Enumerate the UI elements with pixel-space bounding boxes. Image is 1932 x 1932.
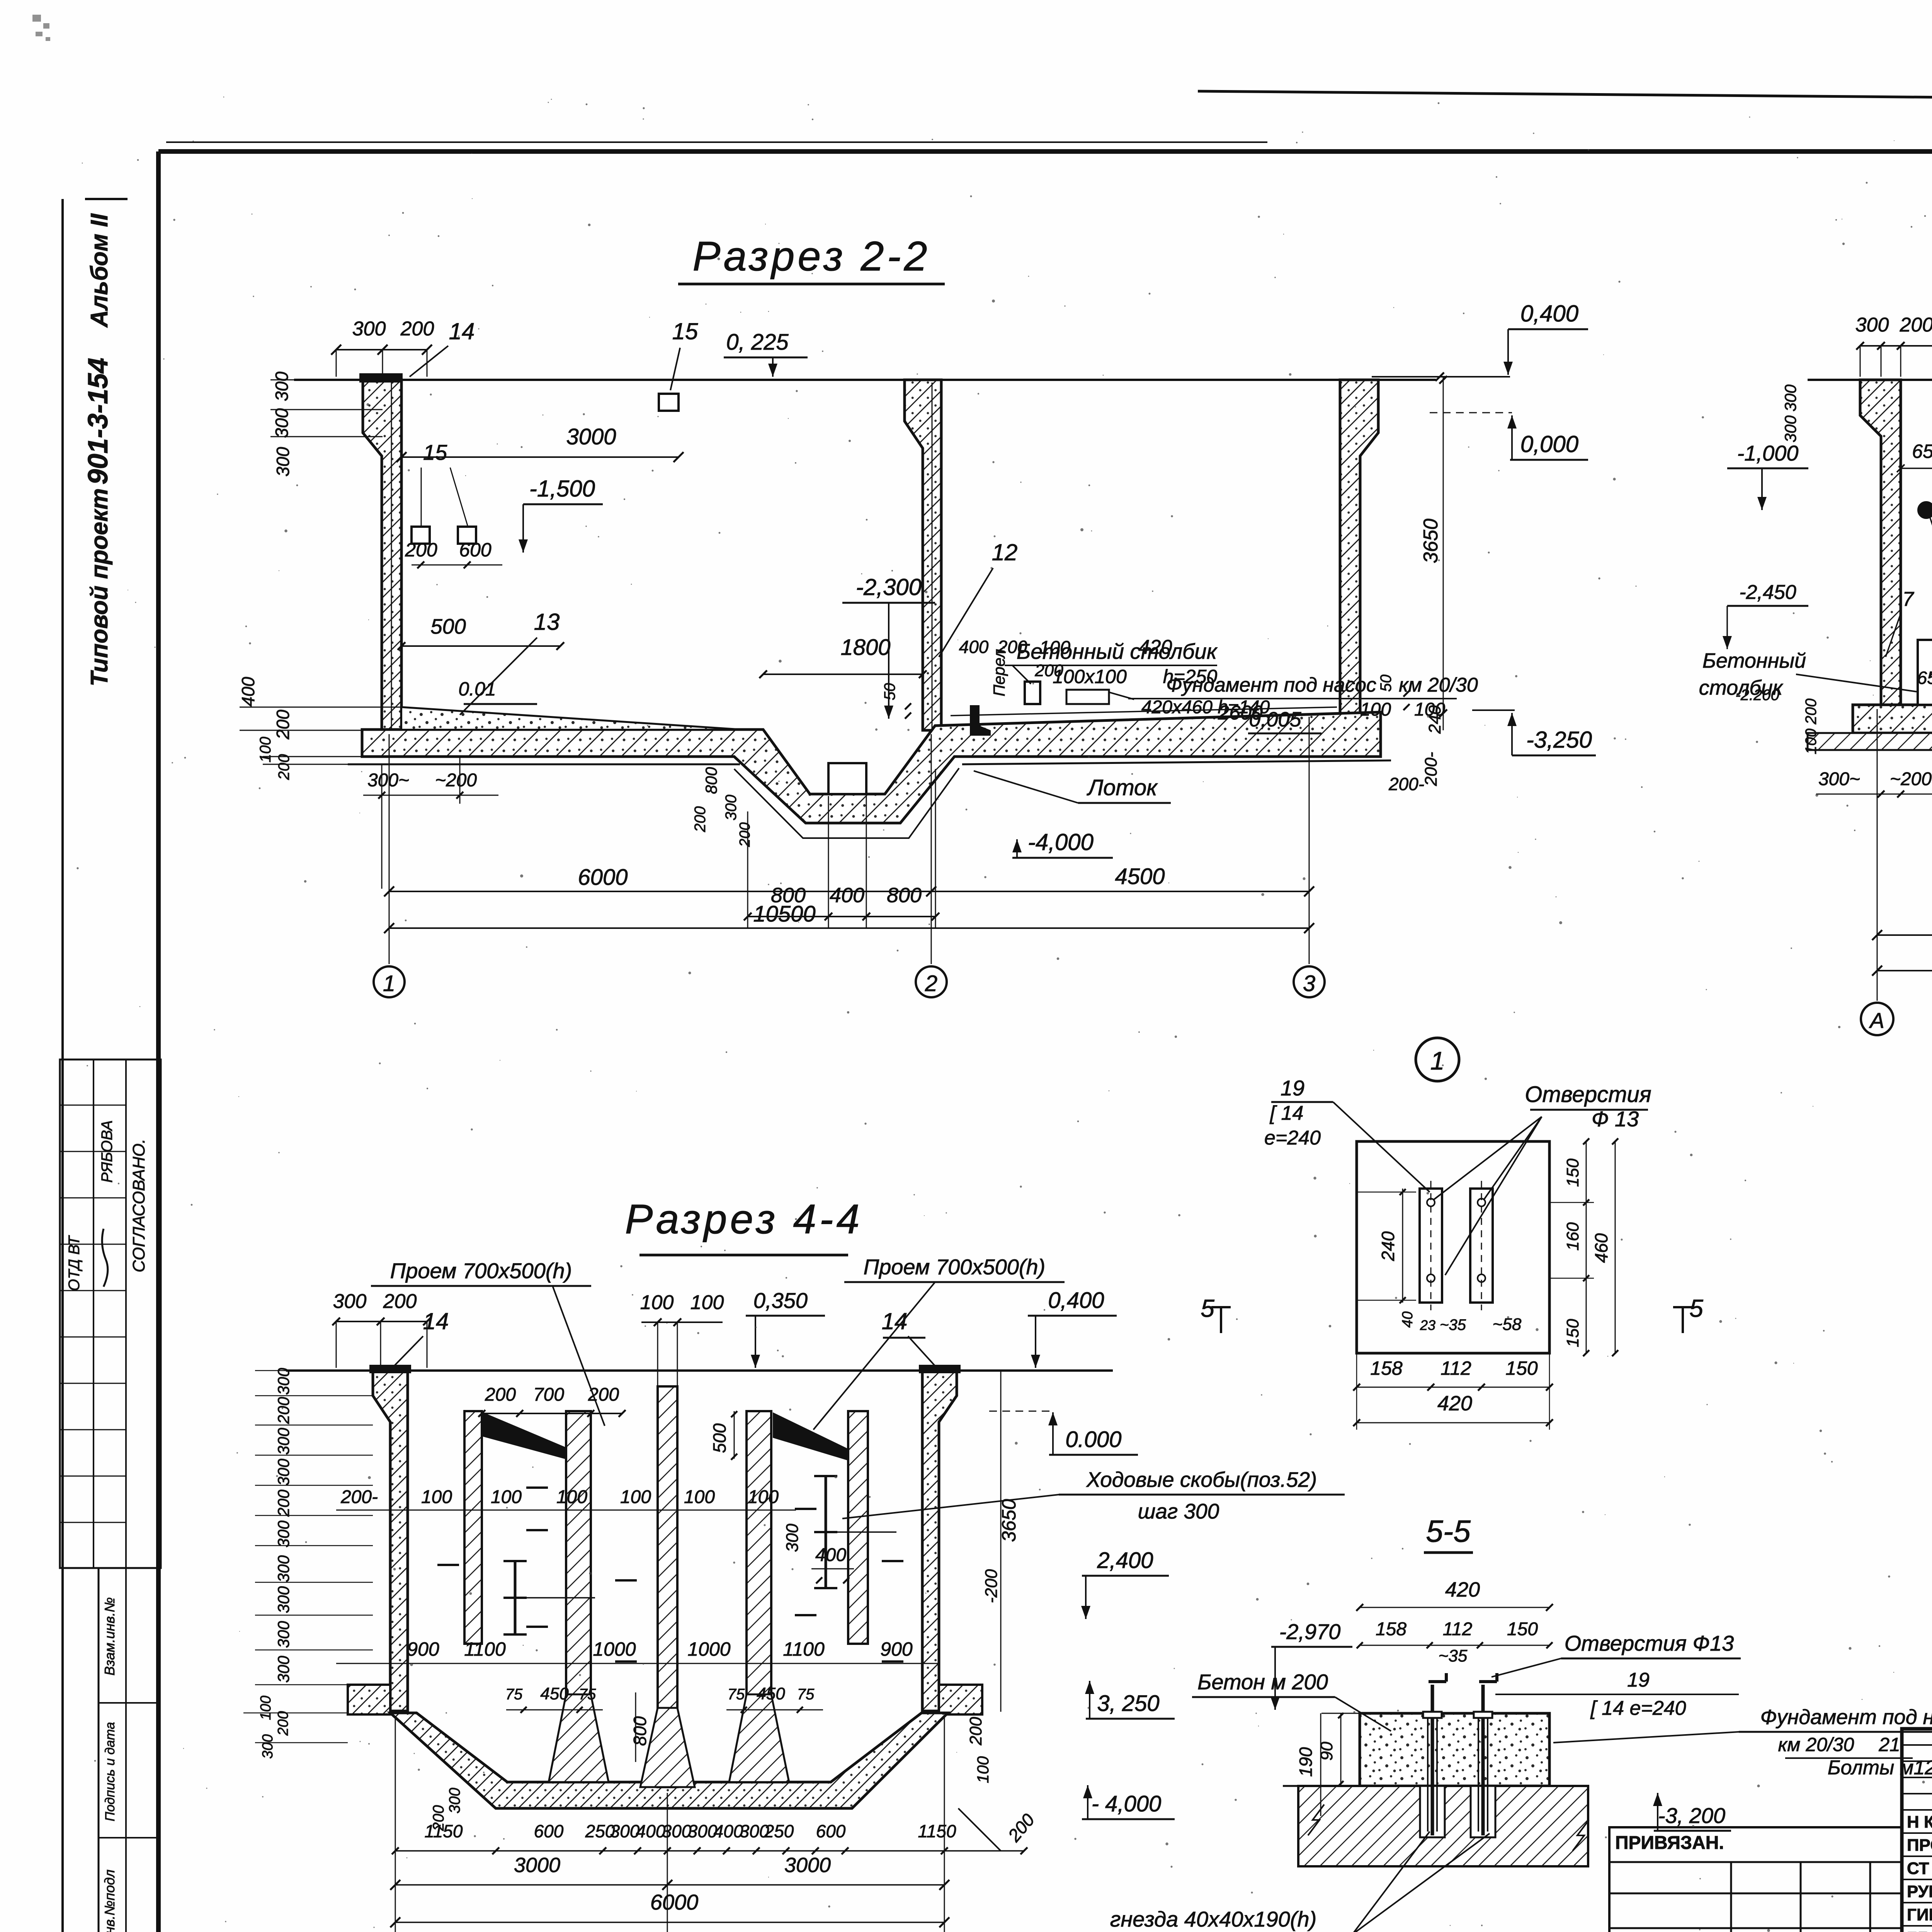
svg-text:23: 23 (1420, 1317, 1435, 1333)
svg-text:10500: 10500 (753, 901, 815, 927)
svg-text:1100: 1100 (464, 1638, 506, 1660)
svg-text:200: 200 (273, 709, 293, 740)
svg-text:300: 300 (783, 1524, 802, 1552)
svg-text:200: 200 (1034, 661, 1063, 680)
svg-text:0,400: 0,400 (1048, 1288, 1104, 1313)
svg-text:200: 200 (274, 1489, 293, 1517)
svg-text:0.01: 0.01 (458, 678, 496, 700)
svg-text:4500: 4500 (1115, 864, 1165, 889)
svg-text:100: 100 (1039, 638, 1070, 658)
svg-text:0,005: 0,005 (1249, 708, 1301, 731)
svg-text:200: 200 (588, 1384, 619, 1405)
svg-text:300: 300 (446, 1788, 463, 1814)
svg-text:100: 100 (491, 1487, 522, 1507)
svg-text:900: 900 (407, 1638, 439, 1660)
svg-text:75: 75 (505, 1686, 523, 1703)
svg-text:158: 158 (1370, 1357, 1403, 1379)
svg-text:0,000: 0,000 (1520, 431, 1578, 457)
svg-text:300: 300 (723, 795, 740, 821)
svg-text:250: 250 (764, 1821, 794, 1841)
svg-text:~200: ~200 (435, 770, 477, 791)
svg-text:200: 200 (274, 1396, 293, 1424)
svg-text:300~: 300~ (367, 770, 409, 791)
svg-text:3, 250: 3, 250 (1097, 1691, 1159, 1716)
svg-text:СТ ИНЖ: СТ ИНЖ (1907, 1859, 1932, 1878)
svg-text:7: 7 (1903, 588, 1915, 611)
svg-text:21: 21 (1878, 1734, 1900, 1755)
svg-text:ПРИВЯЗАН.: ПРИВЯЗАН. (1615, 1833, 1724, 1853)
svg-text:Бетон м 200: Бетон м 200 (1197, 1670, 1328, 1694)
svg-text:км 20/30: км 20/30 (1399, 674, 1478, 696)
svg-text:3650: 3650 (1420, 519, 1442, 563)
svg-text:150: 150 (1505, 1357, 1538, 1379)
svg-text:300: 300 (274, 1458, 293, 1486)
svg-text:Разрез 2-2: Разрез 2-2 (692, 233, 930, 279)
svg-text:14: 14 (449, 318, 475, 344)
svg-text:Лоток: Лоток (1086, 775, 1158, 800)
svg-text:Фундамент под насос: Фундамент под насос (1760, 1706, 1932, 1729)
svg-text:900: 900 (880, 1638, 913, 1660)
svg-text:0,400: 0,400 (1520, 301, 1578, 327)
svg-text:1: 1 (1430, 1046, 1445, 1075)
svg-text:-3, 200: -3, 200 (1658, 1803, 1725, 1828)
svg-text:800: 800 (630, 1716, 650, 1746)
svg-text:РУК ГР: РУК ГР (1907, 1882, 1932, 1901)
svg-text:19: 19 (1627, 1669, 1650, 1691)
svg-text:400: 400 (714, 1821, 743, 1841)
svg-text:158: 158 (1376, 1619, 1406, 1639)
svg-text:6000: 6000 (578, 865, 628, 890)
svg-text:300: 300 (274, 1555, 293, 1582)
svg-text:100: 100 (748, 1487, 779, 1507)
svg-text:300: 300 (274, 1586, 293, 1613)
svg-text:6000: 6000 (650, 1890, 699, 1914)
svg-text:300: 300 (274, 1427, 293, 1455)
svg-text:200-: 200- (340, 1487, 378, 1507)
svg-text:-2,450: -2,450 (1739, 581, 1796, 604)
svg-text:700: 700 (533, 1384, 564, 1405)
svg-text:2,400: 2,400 (1097, 1548, 1153, 1573)
svg-text:Фундамент под насос: Фундамент под насос (1166, 674, 1376, 696)
svg-text:100: 100 (684, 1487, 715, 1507)
svg-text:14: 14 (882, 1308, 908, 1334)
svg-text:СОГЛАСОВАНО.: СОГЛАСОВАНО. (129, 1139, 148, 1272)
svg-text:400: 400 (815, 1545, 846, 1565)
svg-text:5-5: 5-5 (1426, 1514, 1471, 1548)
svg-text:450: 450 (540, 1684, 569, 1703)
svg-text:Отверстия: Отверстия (1525, 1082, 1651, 1107)
svg-text:300: 300 (260, 1734, 276, 1759)
svg-text:1800: 1800 (840, 635, 890, 660)
svg-text:800: 800 (887, 884, 922, 907)
svg-text:-2,300: -2,300 (856, 574, 922, 600)
svg-text:75: 75 (728, 1686, 745, 1703)
svg-text:столбик: столбик (1699, 676, 1784, 699)
svg-text:Взам.инв.№: Взам.инв.№ (102, 1597, 117, 1676)
svg-text:-2,970: -2,970 (1279, 1619, 1341, 1644)
svg-text:200: 200 (276, 754, 293, 781)
svg-text:100: 100 (974, 1756, 992, 1783)
svg-text:0, 225: 0, 225 (726, 330, 789, 355)
svg-text:600: 600 (534, 1821, 564, 1841)
svg-text:~35: ~35 (1440, 1316, 1466, 1333)
svg-text:160: 160 (1563, 1222, 1582, 1251)
svg-text:3: 3 (1303, 971, 1315, 996)
svg-text:650: 650 (1912, 440, 1932, 462)
svg-text:Н КОНТР: Н КОНТР (1907, 1813, 1932, 1832)
svg-text:400: 400 (959, 637, 989, 657)
svg-text:-200: -200 (982, 1569, 1001, 1603)
svg-text:200: 200 (966, 1717, 985, 1746)
svg-text:75: 75 (797, 1686, 815, 1703)
svg-text:460: 460 (1591, 1233, 1611, 1263)
svg-text:Болты м12: Болты м12 (1828, 1757, 1932, 1779)
svg-text:400: 400 (636, 1821, 666, 1841)
svg-text:1100: 1100 (783, 1638, 825, 1660)
svg-text:300: 300 (688, 1821, 718, 1841)
svg-text:500: 500 (430, 614, 466, 638)
svg-text:100: 100 (258, 1696, 274, 1720)
svg-text:гнезда 40х40х190(h): гнезда 40х40х190(h) (1110, 1907, 1316, 1931)
svg-text:650: 650 (1917, 668, 1932, 688)
svg-text:100: 100 (690, 1291, 724, 1314)
svg-text:~35: ~35 (1439, 1646, 1468, 1665)
svg-text:75: 75 (579, 1686, 596, 1703)
svg-text:км 20/30: км 20/30 (1778, 1734, 1854, 1755)
svg-text:2: 2 (925, 971, 937, 996)
svg-text:100 200: 100 200 (1803, 699, 1820, 755)
svg-text:13: 13 (534, 609, 560, 635)
svg-text:Ходовые скобы(поз.52): Ходовые скобы(поз.52) (1086, 1468, 1317, 1492)
svg-text:100: 100 (421, 1487, 452, 1507)
svg-text:300~: 300~ (1818, 769, 1860, 789)
svg-text:800: 800 (702, 767, 720, 794)
svg-text:100: 100 (620, 1487, 651, 1507)
svg-text:-3,250: -3,250 (1526, 727, 1592, 753)
svg-text:300: 300 (274, 1621, 293, 1648)
svg-text:300: 300 (352, 318, 386, 340)
svg-text:50: 50 (881, 683, 898, 701)
svg-text:600: 600 (816, 1821, 846, 1841)
svg-text:-1,500: -1,500 (529, 476, 595, 502)
svg-text:100: 100 (556, 1487, 587, 1507)
svg-text:Проем 700х500(h): Проем 700х500(h) (864, 1255, 1046, 1279)
svg-text:3000: 3000 (784, 1854, 831, 1877)
svg-text:Проем 700х500(h): Проем 700х500(h) (390, 1259, 572, 1283)
svg-text:19: 19 (1281, 1076, 1304, 1100)
svg-text:Альбом II: Альбом II (86, 213, 113, 328)
svg-text:200: 200 (737, 822, 753, 847)
svg-text:-1,000: -1,000 (1737, 441, 1799, 465)
svg-text:ОТД ВТ: ОТД ВТ (66, 1235, 83, 1291)
svg-text:1: 1 (383, 971, 395, 996)
svg-text:50: 50 (1378, 675, 1395, 692)
svg-text:300: 300 (662, 1821, 692, 1841)
svg-text:100: 100 (640, 1291, 674, 1314)
svg-text:- 4,000: - 4,000 (1092, 1791, 1162, 1816)
svg-text:14: 14 (423, 1308, 449, 1334)
svg-text:1000: 1000 (687, 1638, 730, 1660)
svg-text:300: 300 (272, 371, 292, 401)
svg-text:150: 150 (1507, 1619, 1538, 1639)
svg-text:420: 420 (1445, 1578, 1480, 1601)
svg-text:~200: ~200 (1890, 769, 1932, 789)
svg-text:200: 200 (400, 318, 434, 340)
svg-text:200: 200 (383, 1290, 417, 1313)
svg-text:240: 240 (1378, 1231, 1398, 1261)
svg-text:300: 300 (274, 1520, 293, 1548)
svg-text:200: 200 (275, 1711, 291, 1736)
svg-text:150: 150 (1563, 1319, 1582, 1347)
svg-text:200-: 200- (1422, 752, 1440, 786)
svg-text:400: 400 (830, 884, 864, 907)
svg-text:200: 200 (405, 539, 437, 561)
svg-text:300: 300 (1855, 314, 1889, 336)
svg-text:150: 150 (1563, 1158, 1582, 1187)
svg-text:0.000: 0.000 (1065, 1427, 1121, 1452)
svg-text:100х100: 100х100 (1053, 666, 1127, 687)
svg-text:-4,000: -4,000 (1028, 829, 1094, 855)
svg-text:РЯБОВА: РЯБОВА (99, 1120, 116, 1183)
svg-text:100: 100 (1360, 699, 1391, 720)
svg-text:15: 15 (423, 440, 447, 464)
svg-text:0,350: 0,350 (753, 1288, 808, 1313)
svg-text:[ 14 e=240: [ 14 e=240 (1590, 1697, 1686, 1719)
svg-text:Инв.№подл: Инв.№подл (102, 1869, 117, 1932)
svg-text:12: 12 (992, 539, 1018, 565)
svg-text:Ф 13: Ф 13 (1592, 1107, 1639, 1131)
svg-text:А: А (1869, 1008, 1884, 1032)
svg-text:Отверстия Ф13: Отверстия Ф13 (1565, 1631, 1734, 1655)
svg-text:1150: 1150 (425, 1821, 463, 1841)
svg-text:300: 300 (610, 1821, 640, 1841)
svg-text:ГЛ.СПЕЦ.: ГЛ.СПЕЦ. (1907, 1929, 1932, 1932)
svg-text:190: 190 (1296, 1747, 1316, 1777)
svg-text:200-: 200- (1388, 774, 1424, 794)
svg-text:Бетонный: Бетонный (1702, 649, 1806, 672)
svg-text:400: 400 (238, 677, 258, 706)
svg-text:~58: ~58 (1493, 1315, 1522, 1334)
svg-text:1000: 1000 (593, 1638, 636, 1660)
svg-text:[ 14: [ 14 (1270, 1102, 1304, 1124)
svg-text:450: 450 (757, 1684, 785, 1703)
svg-text:112: 112 (1440, 1357, 1471, 1379)
svg-text:e=240: e=240 (1264, 1127, 1321, 1149)
svg-text:Типовой проект: Типовой проект (86, 488, 113, 687)
svg-text:200: 200 (692, 806, 709, 833)
svg-text:3000: 3000 (514, 1854, 560, 1877)
svg-text:112: 112 (1443, 1619, 1473, 1639)
svg-text:600: 600 (459, 539, 492, 561)
svg-text:300: 300 (1781, 415, 1799, 442)
svg-text:шаг 300: шаг 300 (1138, 1499, 1219, 1523)
svg-text:Перел.: Перел. (990, 645, 1008, 696)
svg-text:15: 15 (672, 318, 698, 344)
svg-text:300: 300 (273, 447, 293, 476)
svg-text:300: 300 (1781, 384, 1799, 412)
svg-text:420: 420 (1139, 636, 1172, 658)
svg-text:100: 100 (257, 737, 274, 763)
svg-text:240: 240 (1425, 705, 1444, 734)
svg-text:500: 500 (709, 1423, 730, 1453)
svg-text:300: 300 (274, 1655, 293, 1683)
svg-text:Разрез 4-4: Разрез 4-4 (625, 1196, 862, 1242)
svg-text:90: 90 (1317, 1742, 1336, 1760)
svg-text:40: 40 (1400, 1311, 1416, 1328)
svg-text:1150: 1150 (918, 1821, 956, 1841)
svg-text:300: 300 (272, 408, 292, 438)
svg-text:Подпись и дата: Подпись и дата (103, 1722, 117, 1821)
svg-text:3000: 3000 (566, 424, 616, 449)
svg-text:ПРОВЕР: ПРОВЕР (1907, 1836, 1932, 1855)
svg-text:420: 420 (1437, 1392, 1472, 1415)
svg-text:200: 200 (1900, 314, 1932, 336)
svg-text:ГИП: ГИП (1907, 1905, 1932, 1924)
svg-text:300: 300 (333, 1290, 367, 1313)
svg-text:901-3-154: 901-3-154 (83, 358, 114, 485)
svg-text:200: 200 (485, 1384, 516, 1405)
svg-text:300: 300 (274, 1367, 293, 1395)
